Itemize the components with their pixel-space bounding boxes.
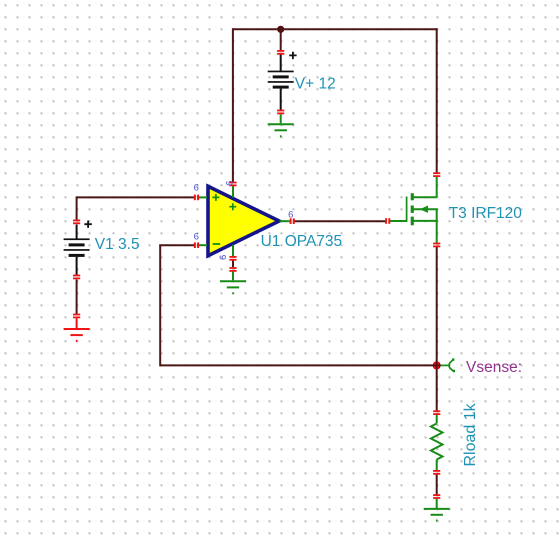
wire junction left feedback bottom — [160, 364, 437, 366]
ground below Rload — [424, 499, 450, 521]
pin mark MOSFET gate — [385, 218, 390, 224]
resistor Rload — [431, 415, 443, 470]
ground below op-amp — [220, 272, 246, 294]
wire right drop to MOSFET drain — [436, 28, 438, 173]
svg-text:6: 6 — [194, 183, 199, 194]
pin mark op-amp top supply — [229, 182, 236, 187]
pin mark battery V+ top — [277, 50, 284, 55]
op-amp U1 triangle — [208, 186, 279, 255]
svg-text:6: 6 — [194, 232, 199, 243]
svg-text:V+ 12: V+ 12 — [295, 76, 336, 93]
pin mark Vsense junction — [434, 362, 440, 369]
wire feedback to inverting input — [159, 244, 195, 246]
pin mark op-amp - input — [194, 242, 199, 248]
svg-text:Vsense:: Vsense: — [466, 359, 522, 376]
op-amp + input lead — [197, 196, 207, 198]
op-amp - input lead — [197, 244, 207, 246]
wire Rload bottom to ground — [436, 474, 438, 495]
pin mark MOSFET source — [433, 243, 440, 248]
wire V+ battery stub — [280, 29, 282, 51]
transistor T3 MOSFET — [390, 176, 438, 244]
svg-text:T3 IRF120: T3 IRF120 — [449, 205, 523, 222]
svg-text:Rload 1k: Rload 1k — [462, 402, 479, 466]
pin mark op-amp bottom supply — [229, 256, 236, 261]
op-amp bottom supply lead — [232, 245, 234, 257]
svg-text:6: 6 — [218, 255, 229, 260]
wire op-amp output to gate — [293, 220, 386, 222]
MOSFET body arrow — [420, 206, 428, 213]
pin mark op-amp output — [290, 218, 295, 224]
pin mark op-amp ground — [229, 267, 236, 272]
pin mark ground below V1 — [73, 314, 80, 319]
pin mark Rload bottom — [433, 470, 440, 475]
op-amp output lead — [280, 220, 290, 222]
wire V1 bottom to ground — [76, 280, 78, 315]
MOSFET gate bar — [406, 197, 408, 222]
wire left drop to op-amp V+ pin — [232, 28, 234, 182]
op-amp supply + marker — [229, 203, 236, 210]
wire junction down to Rload — [436, 365, 438, 411]
pin mark op-amp + input — [194, 195, 199, 201]
wire top rail from left corner to right corner — [233, 28, 437, 30]
svg-text:U1 OPA735: U1 OPA735 — [261, 233, 343, 250]
op-amp - input marker — [213, 243, 221, 245]
svg-text:6: 6 — [288, 209, 293, 220]
svg-text:6: 6 — [225, 181, 236, 186]
pin mark battery V+ bottom — [277, 110, 284, 115]
op-amp top supply lead — [232, 186, 234, 198]
MOSFET channel bars — [411, 193, 414, 225]
op-amp + input marker — [212, 194, 219, 201]
junction dot Vsense node — [433, 361, 441, 369]
battery V1 3.5 — [64, 221, 92, 276]
wire V1 corner vertical — [76, 196, 78, 220]
junction dot at top rail — [277, 26, 284, 33]
pin mark MOSFET drain — [433, 172, 440, 177]
battery V+ 12 — [268, 52, 297, 111]
voltage probe Vsense — [441, 360, 454, 371]
pin mark battery V1 top — [73, 220, 80, 225]
ground below V+ — [268, 114, 294, 136]
wire MOSFET source down to junction — [436, 247, 438, 366]
svg-text:V1 3.5: V1 3.5 — [95, 236, 140, 253]
pin mark ground below Rload — [433, 494, 440, 499]
wire feedback vertical — [159, 245, 161, 366]
wire V1 to non-inverting input — [77, 196, 196, 198]
pin mark battery V1 bottom — [73, 275, 80, 280]
pin mark Rload top — [433, 410, 440, 415]
ground below V1 (red highlighted) — [64, 319, 90, 341]
wire op-amp V- pin to ground — [232, 261, 234, 268]
